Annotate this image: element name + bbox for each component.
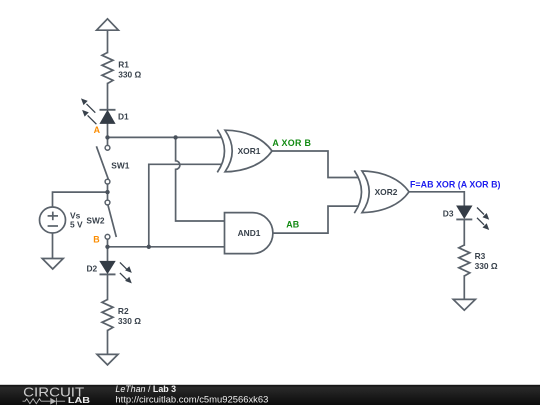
footer bar [0,385,540,405]
wire R3 to ground [463,276,465,299]
svg-text:AB: AB [286,219,299,229]
svg-text:B: B [93,235,99,245]
wire D3 to R3 [463,219,465,245]
svg-text:R2: R2 [118,306,129,316]
R1 labels [118,59,141,79]
svg-text:AND1: AND1 [238,228,261,238]
LED D2 [100,261,116,274]
wire D1 to SW1 (node A) [107,124,109,145]
wire branch B to XOR1 bottom input [149,164,221,247]
and gate AND1 [225,213,273,254]
svg-text:D3: D3 [443,208,454,218]
voltage source Vs [40,207,66,233]
svg-text:http://circuitlab.com/c5mu9256: http://circuitlab.com/c5mu92566xk63 [115,394,268,405]
wire SW2 bottom to D2 (node B) [107,239,109,261]
wire XOR1 output to XOR2 top input [272,151,358,178]
wire R1 to D1 [107,84,109,110]
svg-text:5 V: 5 V [70,220,83,230]
wire Vs to switch junction [53,192,108,207]
svg-text:330 Ω: 330 Ω [118,316,141,326]
switch SW2 [105,200,116,239]
wire R2 to ground [107,331,109,355]
wire branch A to AND1 top input with hop [176,137,225,221]
svg-text:R1: R1 [118,59,129,69]
ground (R3) [453,299,475,310]
svg-text:LeThan / Lab 3: LeThan / Lab 3 [115,384,176,394]
svg-text:R3: R3 [475,251,486,261]
svg-text:SW1: SW1 [111,161,129,171]
wire node A to XOR1 top input [108,136,222,138]
svg-text:A: A [94,125,101,135]
svg-text:D1: D1 [118,111,129,121]
switch SW1 [96,145,110,184]
svg-text:D2: D2 [87,263,98,273]
junction node B [105,245,109,249]
wire AND1 output to XOR2 bottom input [273,206,358,233]
R3 labels [475,251,498,271]
junction branch A [173,135,177,139]
wire VCC to R1 [107,30,109,52]
xor gate XOR2 [354,171,409,214]
ground (R2) [97,354,118,365]
Vs labels [70,211,83,230]
wire XOR2 output to D3 [409,192,464,206]
svg-text:A XOR B: A XOR B [272,138,311,148]
svg-text:SW2: SW2 [86,216,104,226]
resistor R2 [102,300,113,331]
D2 light arrows [120,262,132,283]
svg-text:XOR1: XOR1 [238,146,261,156]
svg-text:F=AB XOR (A XOR B): F=AB XOR (A XOR B) [410,179,501,189]
D3 light arrows [477,208,489,231]
footer logo resistor-diode glyph [23,398,66,405]
D1 light arrows [81,98,96,124]
svg-text:330 Ω: 330 Ω [118,69,141,79]
LED D3 [456,206,472,220]
wire SW1 bottom to SW2 top [107,184,109,200]
svg-text:330 Ω: 330 Ω [475,261,498,271]
ground (Vs) [42,259,63,270]
wire node B to AND1 bottom input [108,246,225,248]
svg-text:XOR2: XOR2 [375,187,398,197]
resistor R3 [459,245,470,276]
xor gate XOR1 [217,130,272,173]
resistor R1 [102,53,113,84]
junction Vs-switch [105,190,109,194]
junction branch B [147,245,151,249]
junction node A [105,135,109,139]
power VCC arrow [97,19,119,30]
svg-text:LAB: LAB [68,396,91,405]
LED D1 [100,110,116,124]
R2 labels [118,306,141,326]
wire Vs to ground [52,233,54,259]
wire D2 to R2 [107,274,109,299]
